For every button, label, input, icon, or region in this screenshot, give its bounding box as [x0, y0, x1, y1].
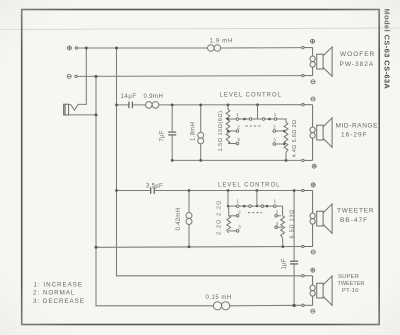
- svg-text:1.9 mH: 1.9 mH: [210, 39, 234, 45]
- svg-text:16-29F: 16-29F: [341, 132, 368, 139]
- svg-text:0.15 mH: 0.15 mH: [206, 295, 232, 301]
- svg-text:6.5Ω 13Ω: 6.5Ω 13Ω: [290, 209, 296, 239]
- svg-text:MID-RANGE: MID-RANGE: [336, 123, 379, 130]
- svg-text:LEVEL CONTROL: LEVEL CONTROL: [218, 183, 280, 189]
- svg-text:LEVEL CONTROL: LEVEL CONTROL: [220, 93, 282, 99]
- svg-text:0.9mH: 0.9mH: [144, 94, 164, 100]
- svg-text:PT-10: PT-10: [342, 288, 359, 294]
- svg-text:PW-382A: PW-382A: [340, 61, 375, 68]
- svg-text:TWEETER: TWEETER: [338, 281, 365, 287]
- svg-text:14µF: 14µF: [121, 94, 137, 100]
- svg-text:WOOFER: WOOFER: [340, 51, 375, 58]
- svg-text:SUPER: SUPER: [338, 274, 359, 280]
- svg-text:TWEETER: TWEETER: [337, 208, 374, 215]
- svg-text:0.42mH: 0.42mH: [176, 208, 182, 231]
- svg-text:7µF: 7µF: [160, 130, 166, 141]
- svg-text:1.8mH: 1.8mH: [191, 122, 197, 141]
- svg-text:2.2Ω 2.2Ω: 2.2Ω 2.2Ω: [217, 200, 223, 235]
- svg-text:Model CS-63 CS-63A: Model CS-63 CS-63A: [382, 9, 391, 90]
- svg-text:3.5µF: 3.5µF: [146, 184, 163, 190]
- svg-text:2: NORMAL: 2: NORMAL: [33, 290, 75, 297]
- svg-text:1.5Ω 15Ω(6Ω): 1.5Ω 15Ω(6Ω): [218, 111, 224, 152]
- svg-text:BB-47F: BB-47F: [340, 217, 368, 224]
- svg-text:3: DECREASE: 3: DECREASE: [33, 298, 85, 305]
- svg-text:1µF: 1µF: [282, 258, 288, 269]
- svg-text:1: INCREASE: 1: INCREASE: [34, 281, 84, 288]
- svg-text:4.4Ω 5.6Ω 2Ω: 4.4Ω 5.6Ω 2Ω: [292, 120, 298, 158]
